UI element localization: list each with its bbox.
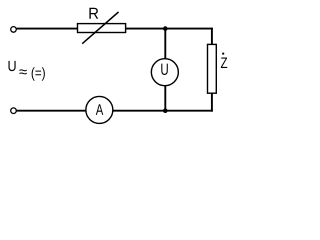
label (=) DC alternative xyxy=(32,67,45,81)
wire: terminal T1 to resistor R xyxy=(17,28,78,30)
label R xyxy=(89,8,98,19)
resistor R adjustment slash xyxy=(82,12,118,44)
label Z overdot xyxy=(222,53,224,55)
terminal T2 (bottom-left input) xyxy=(11,108,17,114)
terminal T1 (top-left input) xyxy=(11,27,17,33)
wire: node A to top-right corner xyxy=(165,28,213,30)
label subscript approx (AC) xyxy=(19,69,26,74)
wire: ammeter A to terminal T2 xyxy=(17,110,86,112)
resistor R (adjustable, body) xyxy=(78,24,126,33)
ammeter A label xyxy=(96,104,103,115)
wire: node B to ammeter A xyxy=(113,110,165,112)
ammeter A (circle) xyxy=(86,96,113,123)
node B (bottom junction dot) xyxy=(163,108,168,113)
voltmeter U (circle) xyxy=(151,59,178,86)
wire: node A down to voltmeter U xyxy=(164,29,166,59)
wire: voltmeter U to node B xyxy=(164,86,166,111)
label U (source voltage) xyxy=(8,61,15,71)
wire: resistor R to node A xyxy=(126,28,165,30)
impedance Z (body) xyxy=(208,44,217,93)
label Z (complex impedance) xyxy=(221,57,227,68)
node A (top junction dot) xyxy=(163,26,168,31)
wire: bottom-right corner to node B xyxy=(165,110,213,112)
wire: impedance Z to bottom-right corner xyxy=(211,93,213,112)
voltmeter U label xyxy=(161,64,168,75)
wire: top-right corner down to impedance Z xyxy=(211,28,213,45)
